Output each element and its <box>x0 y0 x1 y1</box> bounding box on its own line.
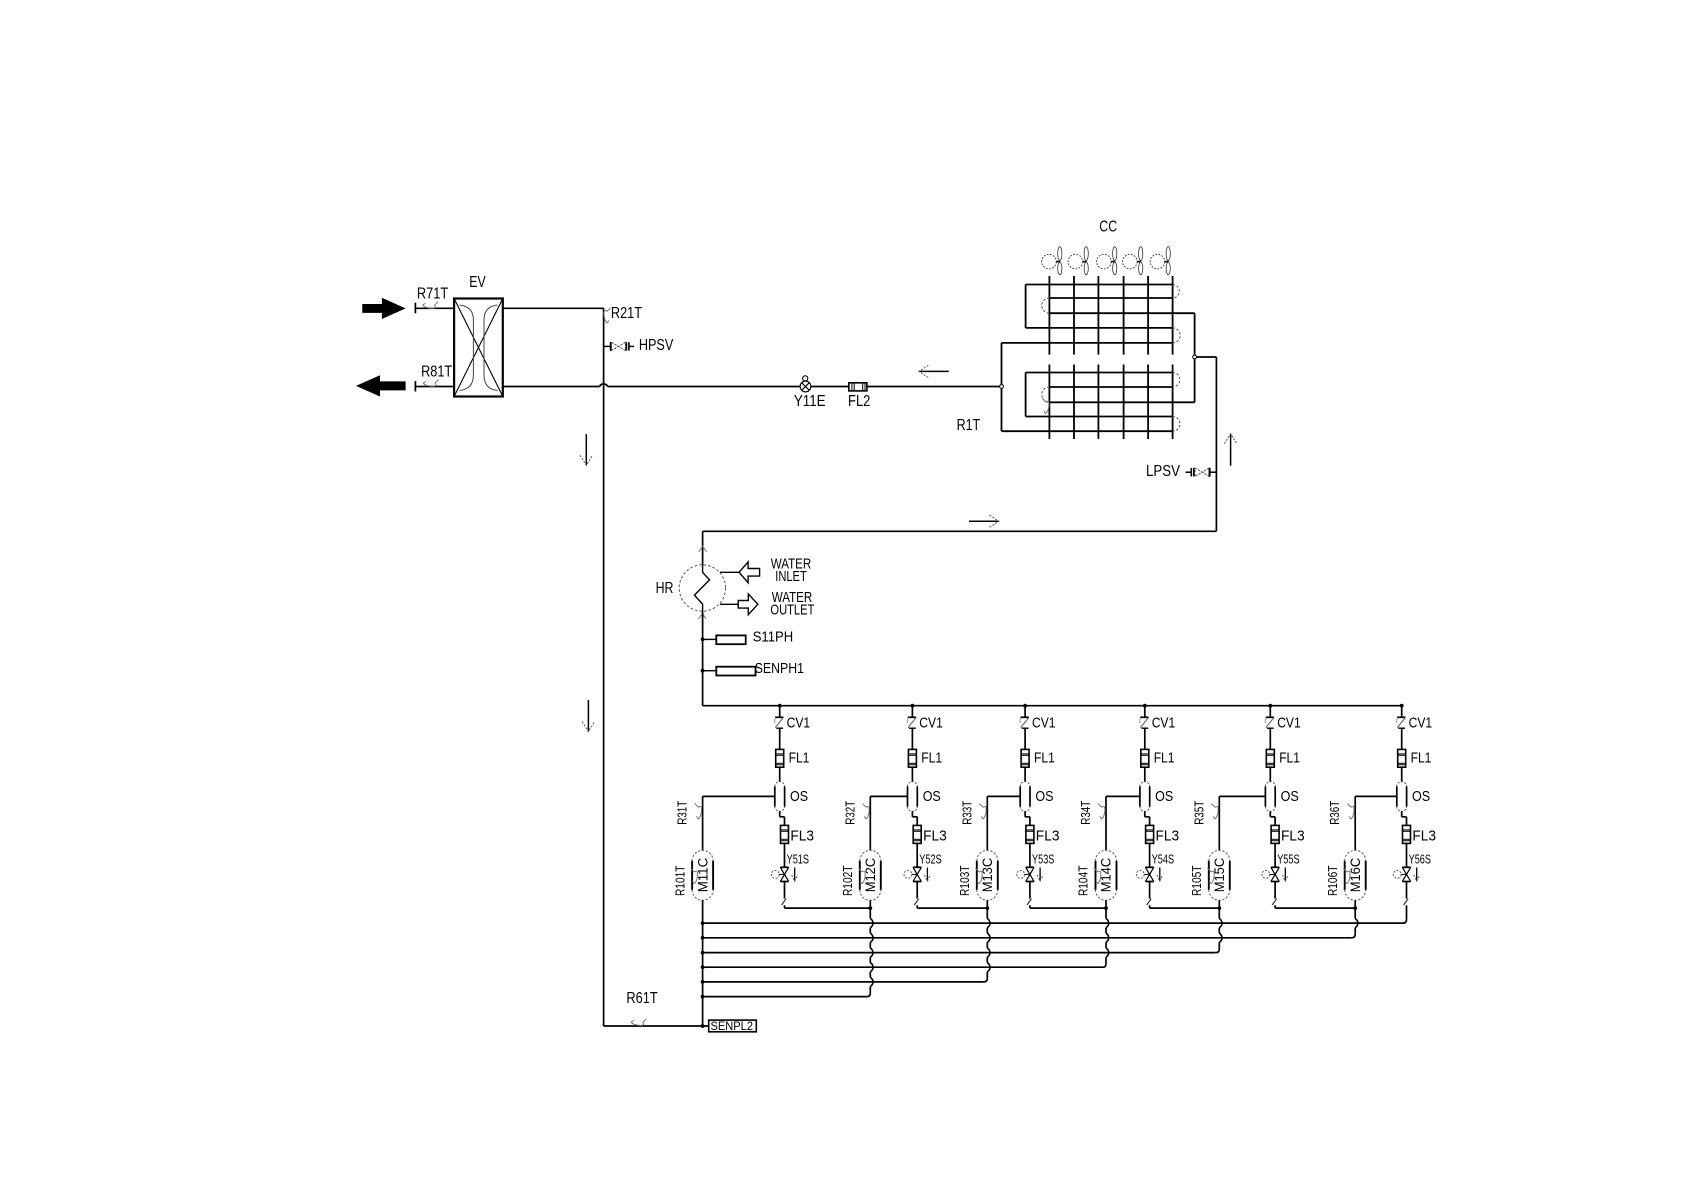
svg-text:R101T: R101T <box>673 865 687 896</box>
flow arrow up (near LPSV) <box>1230 434 1232 466</box>
filter FL1 (branch 3) <box>1021 749 1029 767</box>
compressor M12C <box>859 861 861 890</box>
svg-text:R71T: R71T <box>417 286 449 303</box>
compressor M14C <box>1095 861 1097 890</box>
wire below compressor (branch 2) <box>869 900 871 918</box>
svg-text:CV1: CV1 <box>919 715 943 731</box>
svg-text:R103T: R103T <box>958 865 972 896</box>
svg-text:OS: OS <box>790 789 808 805</box>
svg-text:Y56S: Y56S <box>1409 853 1431 867</box>
wire EV bottom main line with hop <box>503 386 600 388</box>
wire valve 1 to compressor 2 <box>785 907 871 909</box>
compressor M15C <box>1208 861 1210 890</box>
wire: to HR <box>703 530 1217 532</box>
svg-text:INLET: INLET <box>775 569 807 585</box>
wire valve 2 to compressor 3 <box>917 907 987 909</box>
wire OS tap to compressor (branch 2) <box>870 795 907 797</box>
check valve CV1 (branch 4) <box>1144 706 1146 717</box>
wire: down-comer <box>1215 357 1217 531</box>
svg-text:FL3: FL3 <box>790 828 814 844</box>
filter FL1 (branch 1) <box>776 749 784 767</box>
svg-text:HR: HR <box>656 580 674 597</box>
svg-text:R33T: R33T <box>960 800 974 824</box>
svg-text:R81T: R81T <box>421 364 453 381</box>
thermistor R103T <box>976 868 983 883</box>
flow arrow down (lower) <box>587 700 589 732</box>
R71T arrow (gas in) <box>362 298 405 319</box>
wire below valve (branch 6) <box>1406 882 1408 899</box>
svg-text:OS: OS <box>1281 789 1299 805</box>
thermistor R71T <box>423 302 438 309</box>
wire valve 3 to compressor 4 <box>1030 907 1106 909</box>
sensor SENPL2 <box>709 1020 757 1032</box>
water inlet arrow <box>720 571 739 573</box>
svg-text:SENPH1: SENPH1 <box>755 661 804 677</box>
node: CC outlet <box>1195 356 1217 358</box>
wire below compressor (branch 5) <box>1218 900 1220 918</box>
wire OS tap to compressor (branch 5) <box>1219 795 1265 797</box>
equalizing line 5 <box>703 981 984 983</box>
svg-text:OS: OS <box>923 789 941 805</box>
filter FL3 (branch 1) <box>781 825 789 843</box>
equalizing line 4 <box>703 966 1103 968</box>
wire: left main vertical <box>603 308 605 1026</box>
wire OS tap to compressor (branch 6) <box>1355 795 1397 797</box>
check valve CV1 (branch 5) <box>1269 706 1271 717</box>
filter FL1 (branch 4) <box>1141 749 1149 767</box>
equalizing line 1 <box>703 922 1403 924</box>
svg-text:Y11E: Y11E <box>794 393 826 410</box>
node: branch 1 tap <box>778 704 782 708</box>
heat exchanger EV <box>454 299 503 397</box>
water outlet arrow <box>720 603 738 605</box>
fan 4 <box>1123 254 1138 269</box>
flow arrow down (upper) <box>585 434 587 465</box>
fan 5 <box>1150 254 1165 269</box>
svg-text:FL1: FL1 <box>1279 750 1300 766</box>
thermistor R81T <box>423 380 438 387</box>
svg-text:FL3: FL3 <box>1281 828 1305 844</box>
svg-text:R61T: R61T <box>626 990 658 1007</box>
R81T pipe <box>414 381 416 392</box>
svg-text:R106T: R106T <box>1326 865 1340 896</box>
filter FL1 (branch 6) <box>1398 749 1406 767</box>
oil separator OS (branch 1) <box>774 787 776 807</box>
oil separator OS (branch 2) <box>907 787 909 807</box>
wire down into HR <box>702 531 704 565</box>
wire valve 5 to compressor 6 <box>1275 907 1355 909</box>
svg-text:R102T: R102T <box>841 865 855 896</box>
wire below compressor (branch 1) <box>702 900 704 1026</box>
equalizing line 6 <box>703 996 867 998</box>
node: branch 6 tap <box>1400 704 1404 708</box>
wire OS tap to compressor (branch 1) <box>703 795 775 797</box>
filter FL1 (branch 5) <box>1266 749 1274 767</box>
thermistor R104T <box>1094 868 1101 883</box>
svg-text:OS: OS <box>1412 789 1430 805</box>
CC upper coil fins <box>1048 276 1050 355</box>
CC lower coil fins <box>1048 365 1050 440</box>
check valve CV1 (branch 2) <box>911 706 913 717</box>
sensor S11PH <box>701 638 705 642</box>
oil separator OS (branch 3) <box>1019 787 1021 807</box>
wire valve 4 to compressor 5 <box>1150 907 1220 909</box>
wire below compressor (branch 3) <box>986 900 988 918</box>
filter FL3 (branch 5) <box>1271 825 1279 843</box>
svg-text:Y52S: Y52S <box>919 853 941 867</box>
compressor M16C <box>1344 861 1346 890</box>
thermistor R35T <box>1212 804 1219 819</box>
fan 2 <box>1068 254 1083 269</box>
svg-text:R1T: R1T <box>957 417 981 434</box>
wire: SENPL2 line <box>604 1025 709 1027</box>
manifold line <box>703 705 1402 707</box>
wire EV top to R21T corner <box>503 307 604 309</box>
node: branch 2 tap <box>911 704 915 708</box>
thermistor R102T <box>859 868 866 883</box>
svg-text:CV1: CV1 <box>1409 715 1433 731</box>
thermistor R36T <box>1347 804 1354 819</box>
svg-text:R34T: R34T <box>1079 800 1093 824</box>
svg-text:SENPL2: SENPL2 <box>711 1019 754 1033</box>
oil separator OS (branch 5) <box>1264 787 1266 807</box>
svg-text:R32T: R32T <box>843 800 857 824</box>
svg-text:FL1: FL1 <box>1411 750 1432 766</box>
svg-text:CV1: CV1 <box>1277 715 1301 731</box>
wire OS to FL3 (branch 3) <box>1024 811 1026 816</box>
filter FL3 (branch 4) <box>1146 825 1154 843</box>
svg-text:FL3: FL3 <box>923 828 947 844</box>
filter FL3 (branch 3) <box>1026 825 1034 843</box>
fan 3 <box>1097 254 1112 269</box>
filter FL3 (branch 2) <box>913 825 921 843</box>
svg-text:Y55S: Y55S <box>1277 853 1299 867</box>
thermistor R31T <box>695 804 702 819</box>
thermistor R101T <box>691 868 698 883</box>
svg-text:FL1: FL1 <box>789 750 810 766</box>
CC left header <box>1001 343 1003 431</box>
oil separator OS (branch 4) <box>1139 787 1141 807</box>
equalizing line 3 <box>703 952 1216 954</box>
wire OS to FL3 (branch 2) <box>911 811 913 816</box>
wire below valve (branch 2) <box>916 882 918 899</box>
svg-text:FL1: FL1 <box>1034 750 1055 766</box>
svg-text:R31T: R31T <box>676 800 690 824</box>
svg-text:HPSV: HPSV <box>639 337 674 354</box>
R81T arrow (liquid out) <box>356 375 406 396</box>
node: main line joins CC <box>1000 385 1004 389</box>
filter FL1 (branch 2) <box>908 749 916 767</box>
svg-text:EV: EV <box>469 274 486 291</box>
check valve CV1 (branch 1) <box>779 706 781 717</box>
svg-text:Y51S: Y51S <box>787 853 809 867</box>
wire below valve (branch 4) <box>1149 882 1151 899</box>
wire OS to FL3 (branch 4) <box>1144 811 1146 816</box>
CC upper coil serpentine <box>1026 284 1173 286</box>
svg-text:R36T: R36T <box>1328 800 1342 824</box>
svg-text:R104T: R104T <box>1077 865 1091 896</box>
wire OS to FL3 (branch 6) <box>1401 811 1403 816</box>
svg-text:LPSV: LPSV <box>1146 463 1181 480</box>
svg-text:OS: OS <box>1155 789 1173 805</box>
svg-text:R21T: R21T <box>611 305 643 322</box>
flow arrow left (main line) <box>919 370 949 372</box>
node: branch 4 tap <box>1143 704 1147 708</box>
CC lower coil serpentine <box>1026 372 1173 374</box>
wire OS tap to compressor (branch 4) <box>1106 795 1140 797</box>
svg-text:OUTLET: OUTLET <box>770 603 814 619</box>
thermistor R33T <box>980 804 987 819</box>
check valve CV1 (branch 6) <box>1401 706 1403 717</box>
filter FL3 (branch 6) <box>1403 825 1411 843</box>
svg-text:Y54S: Y54S <box>1152 853 1174 867</box>
svg-text:Y53S: Y53S <box>1032 853 1054 867</box>
relief valve HPSV <box>604 345 611 347</box>
svg-text:R35T: R35T <box>1192 800 1206 824</box>
flow arrow right <box>969 520 999 522</box>
filter FL2 <box>849 383 867 391</box>
oil separator OS (branch 6) <box>1396 787 1398 807</box>
svg-text:CV1: CV1 <box>787 715 811 731</box>
thermistor R106T <box>1343 868 1350 883</box>
svg-text:FL3: FL3 <box>1156 828 1180 844</box>
node: branch 5 tap <box>1268 704 1272 708</box>
sensor SENPH1 <box>701 669 705 673</box>
check valve CV1 (branch 3) <box>1024 706 1026 717</box>
svg-text:CV1: CV1 <box>1032 715 1056 731</box>
heat exchanger HR <box>679 565 725 611</box>
node: branch 3 tap <box>1023 704 1027 708</box>
fan 1 <box>1042 254 1057 269</box>
thermistor R21T <box>604 308 611 323</box>
wire below compressor (branch 6) <box>1354 900 1356 918</box>
thermistor R105T <box>1208 868 1215 883</box>
wire OS tap to compressor (branch 3) <box>987 795 1020 797</box>
svg-text:CV1: CV1 <box>1152 715 1176 731</box>
svg-text:CC: CC <box>1099 218 1117 235</box>
svg-text:S11PH: S11PH <box>753 630 794 646</box>
equalizing line 2 <box>703 937 1352 939</box>
svg-text:OS: OS <box>1035 789 1053 805</box>
svg-text:FL1: FL1 <box>1154 750 1175 766</box>
wire below valve (branch 1) <box>784 882 786 899</box>
wire below valve (branch 5) <box>1274 882 1276 899</box>
svg-text:FL3: FL3 <box>1036 828 1060 844</box>
R71T pipe <box>414 303 416 314</box>
thermistor R34T <box>1098 804 1105 819</box>
CC right header <box>1194 313 1196 402</box>
svg-text:FL2: FL2 <box>848 393 870 410</box>
wire OS to FL3 (branch 1) <box>779 811 781 816</box>
compressor M11C <box>691 861 693 890</box>
svg-text:R105T: R105T <box>1190 865 1204 896</box>
thermistor R61T <box>631 1019 646 1026</box>
expansion valve Y11E <box>800 381 811 392</box>
thermistor R32T <box>863 804 870 819</box>
wire OS to FL3 (branch 5) <box>1269 811 1271 816</box>
compressor M13C <box>976 861 978 890</box>
wire below HR <box>702 611 704 705</box>
wire below valve (branch 3) <box>1029 882 1031 899</box>
svg-text:FL1: FL1 <box>921 750 942 766</box>
svg-text:FL3: FL3 <box>1412 828 1436 844</box>
thermistor R1T <box>1042 398 1049 413</box>
wire below compressor (branch 4) <box>1105 900 1107 918</box>
